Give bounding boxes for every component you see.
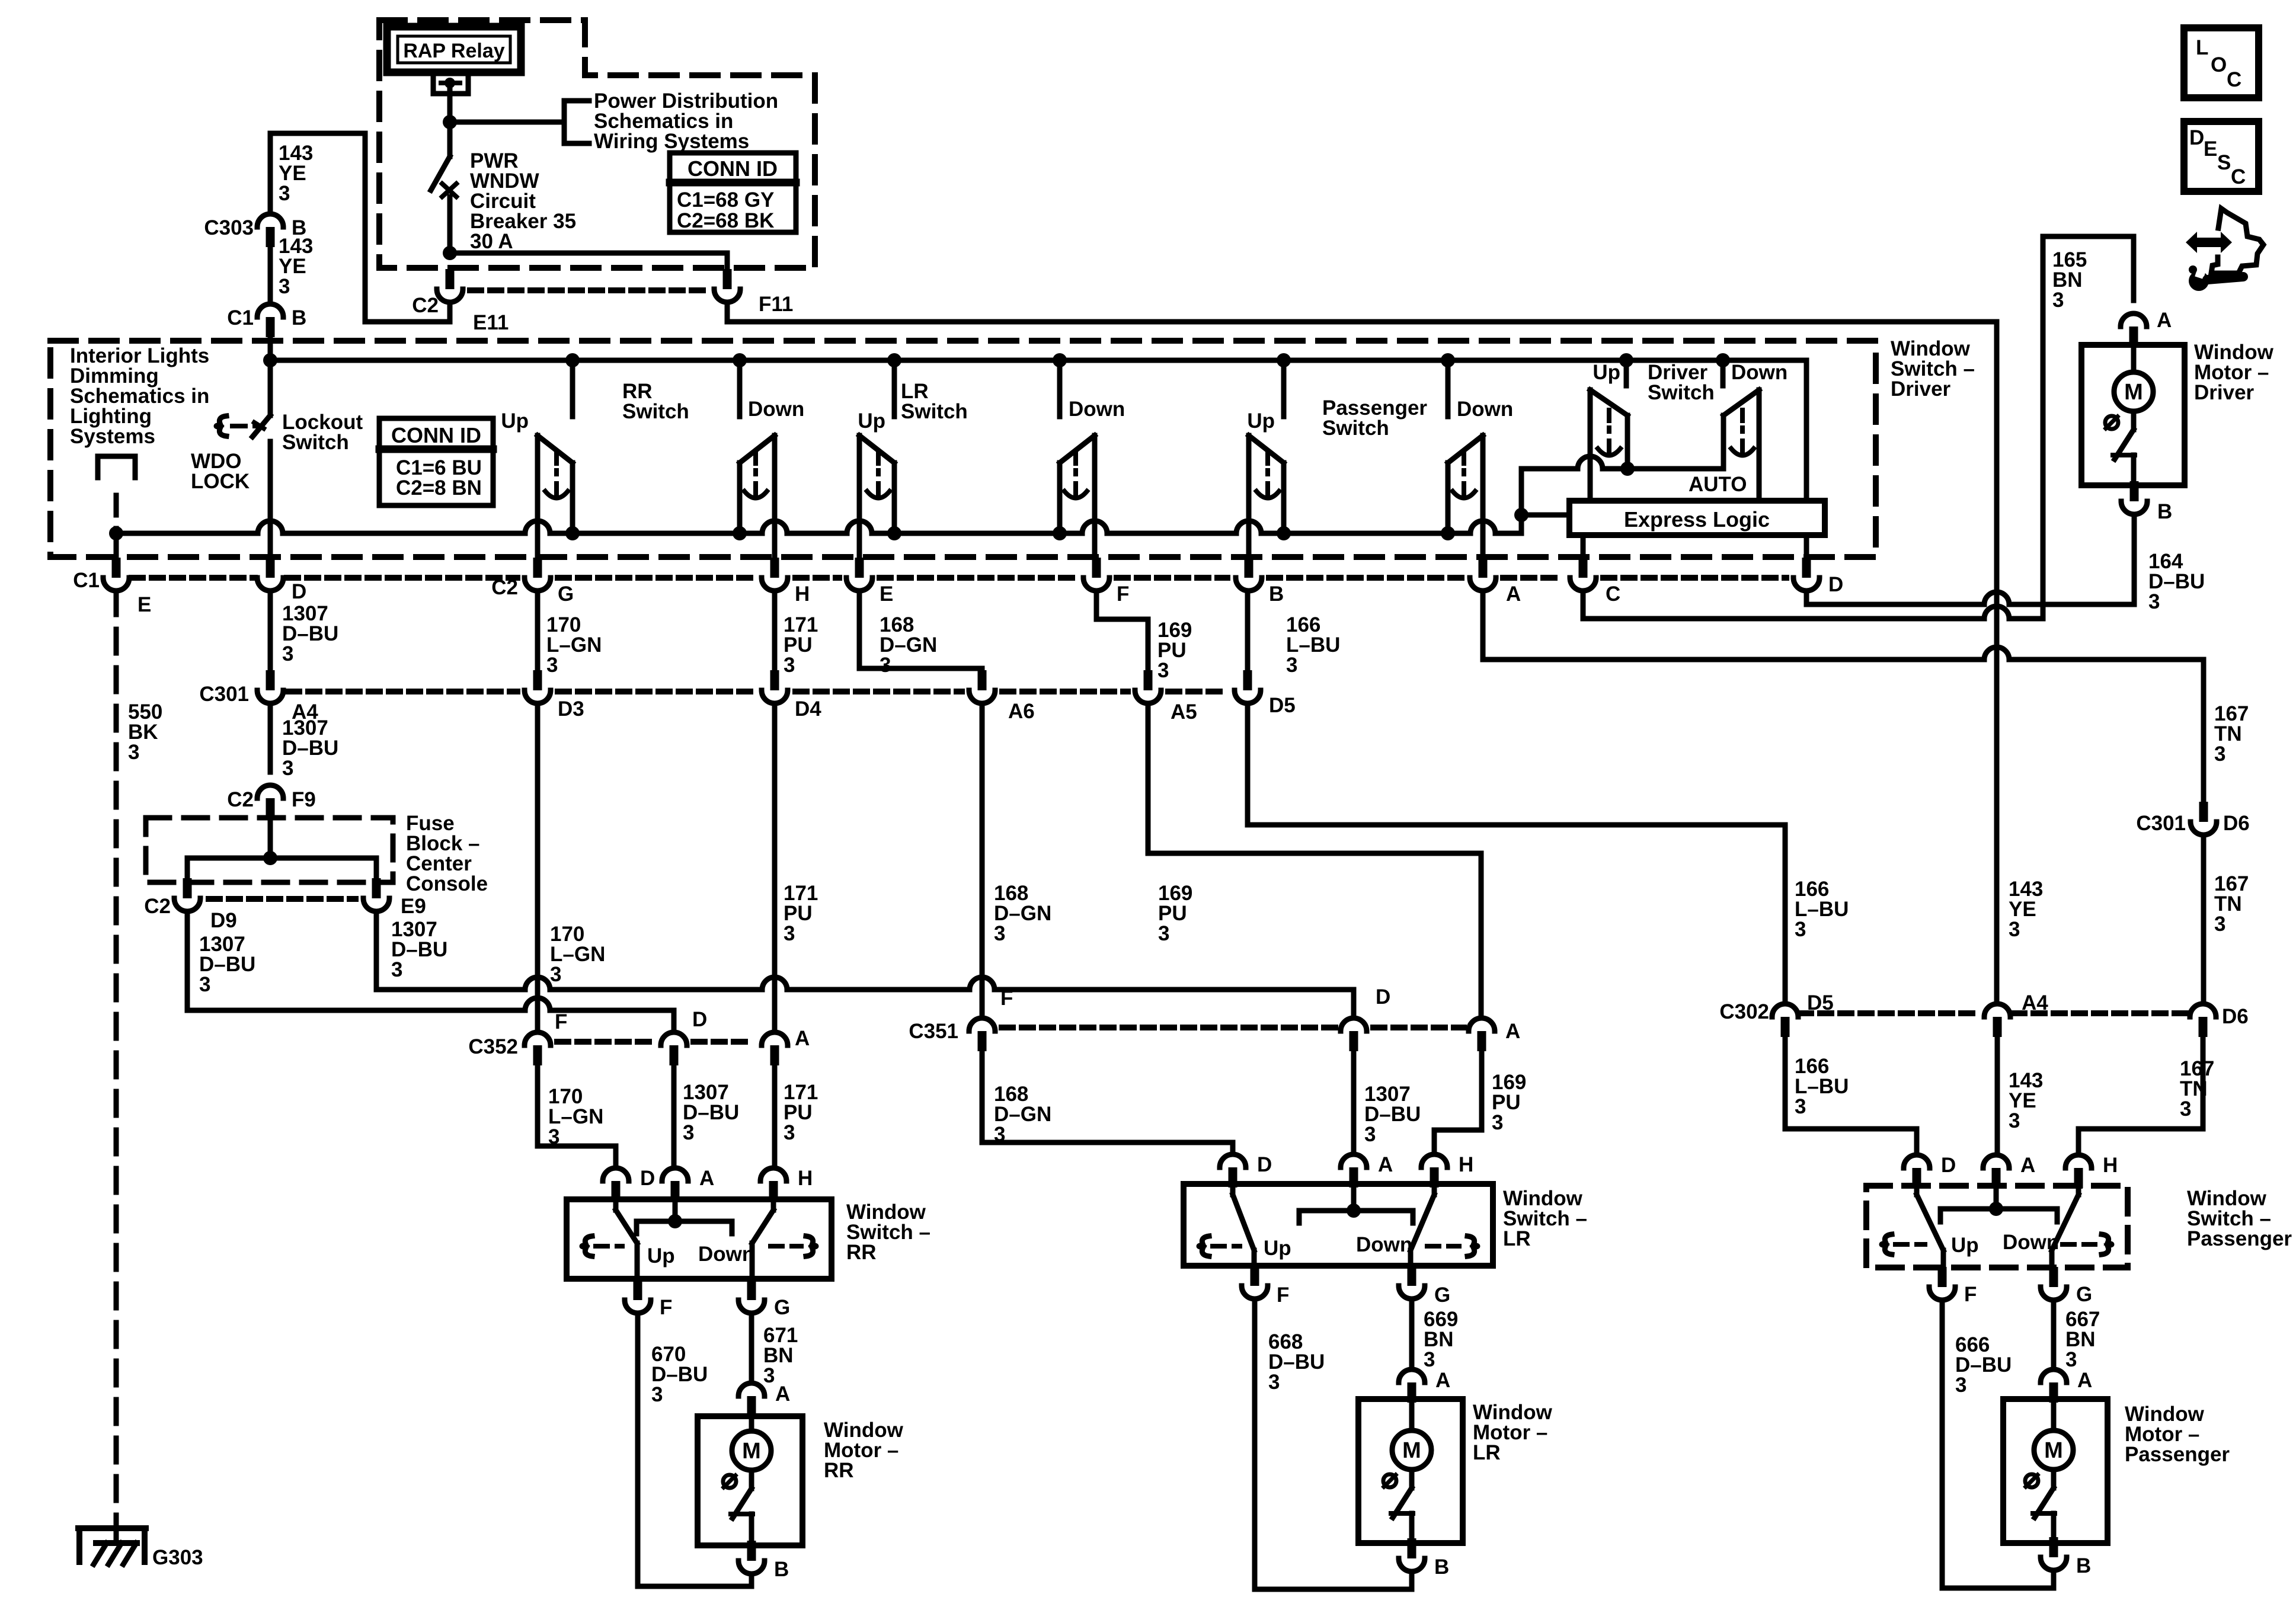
wire 168 D-GN C351-F to LR switch D — [982, 1051, 1233, 1154]
svg-text:Switch: Switch — [1322, 417, 1389, 440]
LR window up switch contact — [892, 360, 897, 417]
svg-text:A: A — [2020, 1154, 2035, 1177]
connector C351 pin D — [1341, 1018, 1367, 1031]
svg-text:C2: C2 — [491, 576, 518, 599]
driver down switch contact — [1723, 390, 1759, 415]
wire 1307 E9 to C351-D — [374, 911, 379, 990]
passenger switch common bar — [1940, 1209, 2057, 1222]
wire 143 YE into window switch — [268, 337, 273, 360]
svg-text:E11: E11 — [473, 311, 509, 334]
CONN ID table (switch) C1=6 BU C2=8 BN — [379, 418, 493, 505]
svg-text:C1: C1 — [73, 569, 100, 592]
svg-text:3: 3 — [1158, 922, 1169, 945]
svg-text:C: C — [2227, 68, 2241, 91]
svg-text:F: F — [555, 1010, 567, 1033]
svg-text:Down: Down — [748, 398, 804, 421]
fuse block - center console (dashed outline) — [379, 20, 815, 268]
wire 166 C302-D5 to passenger D — [1785, 1037, 1917, 1155]
connector pin A (driver motor) — [2121, 313, 2147, 327]
svg-text:3: 3 — [1157, 659, 1169, 682]
svg-text:G: G — [558, 582, 574, 606]
fuse block - center console lower (dashed outline) — [146, 818, 393, 882]
svg-text:G: G — [2076, 1283, 2092, 1306]
wire 169 PU C351-A to LR switch H — [1434, 1051, 1482, 1154]
svg-text:D: D — [1941, 1154, 1956, 1177]
svg-text:D5: D5 — [1807, 991, 1834, 1014]
LR switch down blade — [1432, 1188, 1437, 1195]
connector pin G (passenger switch) — [2049, 1267, 2058, 1287]
wire 168 D-GN A6 to C351-F — [980, 703, 985, 1018]
svg-text:D6: D6 — [2222, 1005, 2249, 1028]
express logic block U1 — [1569, 501, 1825, 535]
svg-text:C: C — [1606, 582, 1620, 606]
circuit breaker 35 PWR WNDW 30A — [447, 122, 453, 156]
wire 143 YE down right side — [1994, 322, 2000, 1003]
svg-text:C352: C352 — [468, 1035, 518, 1058]
svg-text:E9: E9 — [401, 895, 426, 918]
wire 671 BN RR G to motor A — [749, 1313, 754, 1383]
svg-text:C301: C301 — [2136, 812, 2186, 835]
connector pin B (passenger motor) — [2049, 1537, 2058, 1557]
LR window down switch contact — [1057, 360, 1063, 417]
wire 171 PU C352-A to RR switch H — [772, 1065, 778, 1168]
connector pin H (LR switch) — [1421, 1154, 1447, 1167]
svg-text:B: B — [774, 1558, 789, 1581]
connector pin D (passenger switch) — [1904, 1155, 1930, 1168]
svg-text:Switch: Switch — [901, 400, 968, 423]
svg-text:3: 3 — [2180, 1097, 2191, 1121]
connector pin F (passenger switch) — [1938, 1267, 1947, 1287]
svg-text:C303: C303 — [204, 216, 254, 239]
svg-text:3: 3 — [651, 1383, 663, 1406]
svg-text:3: 3 — [2065, 1348, 2077, 1371]
wire 170 L-GN C352-F to RR switch D — [538, 1065, 616, 1168]
connector C1 pin D — [266, 558, 275, 578]
wire 170 L-GN D3 to C352-F — [535, 703, 541, 1032]
wire 169 PU F to C301-A5 — [1096, 591, 1148, 670]
wire 668 D-BU LR F to motor B — [1255, 1299, 1412, 1589]
svg-text:3: 3 — [1424, 1348, 1435, 1371]
svg-text:D3: D3 — [558, 697, 584, 721]
svg-text:3: 3 — [1795, 918, 1806, 941]
svg-text:G: G — [774, 1296, 790, 1319]
connector C2 pin H — [770, 558, 779, 578]
window motor - LR M3 — [1358, 1399, 1463, 1543]
svg-text:M: M — [1402, 1438, 1421, 1463]
window switch - RR box — [567, 1199, 832, 1279]
svg-text:O: O — [2211, 53, 2227, 76]
connector pin A (RR motor) — [738, 1383, 765, 1396]
connector row dotted line D9-E9 — [209, 896, 356, 902]
top bus drop to express logic — [1804, 360, 1809, 501]
connector C301 pin D5 — [1243, 670, 1252, 690]
svg-text:3: 3 — [391, 958, 402, 981]
svg-text:Up: Up — [1593, 361, 1620, 384]
svg-text:Console: Console — [406, 872, 488, 895]
junction node at breaker input — [443, 115, 457, 129]
wire F9 into fuse block with junction — [268, 818, 273, 858]
svg-text:M: M — [742, 1439, 761, 1464]
svg-text:3: 3 — [2148, 590, 2160, 613]
connector C1 pin E (dashed circuit) — [112, 558, 121, 578]
LR switch common bar — [1299, 1211, 1413, 1223]
svg-text:LOCK: LOCK — [191, 470, 250, 493]
wire 166 L-BU D5 to C302-D5 — [1248, 703, 1785, 1003]
connector C301 pin A6 — [978, 670, 987, 690]
wire 171 PU D4 to C352-A — [772, 703, 778, 1032]
wire 1307 D9 to C352-D — [185, 911, 190, 1010]
wire 164 D-BU D to driver motor B — [1806, 592, 2134, 604]
svg-text:Passenger: Passenger — [2187, 1227, 2292, 1250]
svg-text:A4: A4 — [2022, 991, 2048, 1014]
svg-text:RAP Relay: RAP Relay — [403, 40, 504, 62]
svg-text:A: A — [775, 1382, 790, 1406]
svg-text:Up: Up — [1264, 1237, 1291, 1260]
wire 1307 D-BU lockout to C301-A4 — [268, 591, 273, 670]
connector row dotted line C301 — [288, 689, 517, 694]
express logic pin D lead — [1804, 535, 1809, 558]
wire 169 PU A5 to C351-A — [1148, 703, 1481, 1018]
svg-text:C301: C301 — [199, 683, 249, 706]
svg-text:3: 3 — [1268, 1371, 1280, 1394]
svg-text:Switch: Switch — [622, 400, 689, 423]
svg-text:H: H — [1459, 1153, 1473, 1176]
junction node breaker output — [443, 246, 457, 260]
wire 143 YE F11 to passenger feed (long top run) — [727, 302, 1997, 322]
svg-text:M: M — [2124, 380, 2143, 405]
svg-text:B: B — [2157, 500, 2172, 523]
svg-text:3: 3 — [2052, 289, 2064, 312]
lockout switch — [268, 360, 273, 415]
LR switch up blade — [1230, 1188, 1236, 1195]
ground G303 — [114, 1523, 119, 1543]
RR window up switch contact — [570, 360, 575, 417]
svg-text:RR: RR — [846, 1241, 877, 1264]
connector row dotted line C352 — [557, 1039, 655, 1045]
svg-text:A6: A6 — [1008, 700, 1035, 723]
svg-text:Switch: Switch — [282, 431, 349, 454]
svg-text:Wiring Systems: Wiring Systems — [594, 130, 749, 153]
driver switch common links — [1521, 456, 1723, 469]
RR switch common bar — [637, 1221, 732, 1234]
connector C352 pin D — [661, 1032, 687, 1045]
svg-text:Down: Down — [698, 1243, 754, 1266]
svg-text:3: 3 — [548, 1125, 559, 1148]
RR window down switch contact — [737, 360, 743, 417]
RR switch down blade — [771, 1201, 776, 1210]
driver up switch contact — [1590, 390, 1627, 415]
svg-text:F: F — [1964, 1283, 1977, 1306]
window switch - LR box — [1184, 1184, 1493, 1266]
svg-text:D: D — [640, 1167, 655, 1190]
svg-text:C2: C2 — [144, 895, 171, 918]
svg-text:A: A — [1378, 1153, 1393, 1176]
svg-text:Switch: Switch — [1648, 381, 1715, 404]
connector C302 pin D5 — [1772, 1004, 1798, 1017]
svg-text:Up: Up — [647, 1244, 675, 1267]
svg-text:3: 3 — [550, 963, 561, 986]
driver switch down stub — [1721, 360, 1726, 386]
connector pin D (LR switch) — [1220, 1154, 1246, 1167]
wire 165 BN C to driver motor A — [1583, 606, 2043, 619]
wire 1307 D-BU C352-D to RR switch A — [671, 1065, 677, 1168]
window motor - RR M2 — [698, 1416, 802, 1545]
svg-text:Up: Up — [1951, 1234, 1979, 1257]
connector C303 pin B — [257, 214, 283, 227]
top feed bus inside switch — [270, 358, 1806, 363]
svg-text:3: 3 — [683, 1121, 694, 1144]
connector pin B (LR motor) — [1408, 1538, 1416, 1558]
svg-text:3: 3 — [1492, 1111, 1503, 1134]
svg-text:C1=68 GY: C1=68 GY — [677, 188, 774, 212]
connector pin A (passenger motor) — [2041, 1369, 2067, 1382]
passenger window down switch contact — [1446, 360, 1451, 417]
svg-text:CONN ID: CONN ID — [687, 156, 778, 181]
svg-text:3: 3 — [546, 654, 558, 677]
connector C2 pin D9 — [183, 878, 192, 898]
svg-text:3: 3 — [784, 654, 795, 677]
svg-text:Systems: Systems — [70, 425, 155, 448]
connector C301 pin D6 — [2199, 802, 2208, 822]
svg-text:G303: G303 — [152, 1546, 203, 1569]
svg-text:B: B — [2076, 1554, 2091, 1577]
svg-text:F: F — [660, 1296, 672, 1319]
svg-text:C2: C2 — [412, 294, 439, 317]
svg-text:E: E — [880, 582, 893, 606]
wire 666 D-BU pass F to motor B — [1942, 1300, 2054, 1588]
svg-text:F: F — [1277, 1283, 1289, 1307]
svg-text:3: 3 — [1364, 1123, 1376, 1146]
svg-text:F11: F11 — [759, 293, 793, 316]
svg-text:3: 3 — [282, 757, 293, 780]
svg-text:C2=8 BN: C2=8 BN — [396, 476, 482, 500]
svg-text:D: D — [292, 580, 306, 603]
svg-text:3: 3 — [199, 973, 210, 996]
svg-text:C351: C351 — [909, 1020, 958, 1043]
connector C352 pin F — [525, 1032, 551, 1045]
svg-text:A: A — [2077, 1369, 2092, 1392]
svg-text:Up: Up — [858, 409, 885, 433]
wire 550 BK dashed to ground G303 — [114, 591, 119, 1527]
wire 143 YE from E11 down-left to C303 — [270, 133, 450, 322]
svg-text:Driver: Driver — [1891, 377, 1951, 401]
connector pin B (driver motor) — [2130, 481, 2139, 501]
svg-text:Passenger: Passenger — [2125, 1443, 2230, 1466]
connector pin D (RR switch) — [603, 1168, 629, 1181]
wire 669 BN LR G to motor A — [1409, 1299, 1415, 1369]
wire 171 PU H to C301-D4 — [772, 591, 778, 670]
svg-text:3: 3 — [880, 654, 891, 677]
svg-text:F: F — [1000, 987, 1013, 1010]
connector pin F11 — [723, 269, 732, 289]
service icon (arrow, panel, wrench) — [2186, 232, 2232, 253]
connector pin A (RR switch) — [662, 1168, 688, 1181]
svg-text:D5: D5 — [1269, 694, 1296, 717]
connector C302 pin A4 — [1984, 1004, 2010, 1017]
svg-text:Down: Down — [2003, 1231, 2059, 1254]
connector pin F (LR switch) — [1251, 1266, 1259, 1286]
svg-text:G: G — [1434, 1283, 1450, 1307]
connector C2 pin E — [855, 558, 864, 578]
svg-text:3: 3 — [994, 922, 1005, 945]
svg-text:D: D — [2189, 126, 2204, 149]
svg-text:3: 3 — [282, 642, 293, 665]
svg-text:E: E — [2204, 137, 2217, 161]
svg-text:C: C — [2231, 165, 2246, 188]
svg-text:B: B — [1434, 1555, 1449, 1579]
svg-text:D6: D6 — [2223, 812, 2250, 835]
wire 1307 D-BU A4 to C2-F9 — [268, 703, 273, 772]
svg-text:A: A — [699, 1167, 714, 1190]
svg-text:A5: A5 — [1171, 700, 1197, 724]
connector pin H (RR switch) — [760, 1168, 786, 1181]
connector pin F (RR switch) — [634, 1280, 642, 1300]
svg-text:B: B — [1269, 582, 1284, 606]
svg-text:D: D — [1376, 985, 1390, 1009]
connector pin B (RR motor) — [747, 1541, 756, 1561]
connector C301 pin D4 — [770, 670, 779, 690]
svg-text:D: D — [1257, 1153, 1272, 1176]
svg-text:3: 3 — [763, 1364, 775, 1387]
window switch - passenger box (dashed) — [1866, 1186, 2128, 1267]
bottom common bus inside switch — [116, 521, 1521, 533]
svg-text:E: E — [137, 593, 151, 616]
power distribution reference bracket — [562, 101, 567, 143]
wire breaker output to F11 — [450, 251, 727, 256]
dashed wire from interior lights reference to bus — [114, 495, 119, 533]
svg-text:B: B — [292, 306, 306, 329]
svg-text:Up: Up — [501, 409, 529, 433]
connector C2 pin D (express) — [1802, 558, 1811, 578]
wire 167 TN D6 to C302-D6 — [2201, 835, 2207, 1003]
svg-text:H: H — [2103, 1154, 2118, 1177]
svg-text:C2=68 BK: C2=68 BK — [677, 209, 774, 232]
svg-text:A: A — [1505, 1020, 1520, 1043]
wire 170 L-GN G to C301-D3 — [535, 591, 541, 670]
svg-text:A: A — [795, 1027, 810, 1050]
wire to power distribution reference — [450, 120, 564, 125]
svg-text:RR: RR — [824, 1459, 854, 1482]
wire 143 C302-A4 to passenger A — [1995, 1037, 2000, 1155]
svg-text:Up: Up — [1247, 409, 1275, 433]
svg-text:AUTO: AUTO — [1689, 473, 1747, 496]
svg-text:Down: Down — [1457, 398, 1513, 421]
connector row dotted line E11-F11 — [470, 287, 707, 293]
passenger switch down blade — [2076, 1188, 2081, 1195]
svg-text:LR: LR — [1473, 1441, 1501, 1464]
connector C2 pin A — [1479, 558, 1488, 578]
svg-text:D: D — [1828, 573, 1843, 596]
connector row dotted line C351 — [1002, 1025, 1335, 1030]
svg-text:A: A — [1435, 1369, 1450, 1392]
junction dot lockout at bus — [263, 353, 277, 367]
svg-text:CONN ID: CONN ID — [391, 423, 481, 447]
svg-text:3: 3 — [994, 1123, 1005, 1146]
connector C301 pin D3 — [533, 670, 542, 690]
svg-text:Down: Down — [1356, 1233, 1412, 1256]
RAP relay pin bracket — [433, 75, 468, 94]
svg-text:A: A — [1506, 582, 1521, 606]
svg-text:3: 3 — [1795, 1095, 1806, 1118]
wire 167 C302-D6 to passenger H — [2078, 1037, 2203, 1155]
connector pin G (LR switch) — [1408, 1266, 1416, 1286]
connector pin A (passenger switch) — [1983, 1155, 2009, 1168]
svg-text:L: L — [2196, 36, 2208, 59]
svg-text:3: 3 — [1955, 1374, 1966, 1397]
svg-text:3: 3 — [2009, 1109, 2020, 1132]
svg-text:Down: Down — [1731, 361, 1787, 384]
svg-text:H: H — [798, 1167, 813, 1190]
svg-text:D4: D4 — [795, 697, 821, 721]
svg-text:3: 3 — [784, 1121, 795, 1144]
svg-text:3: 3 — [279, 275, 290, 298]
connector pin H (passenger switch) — [2065, 1155, 2092, 1168]
connector C2 pin B — [1245, 558, 1253, 578]
connector row dotted line C1/C2 — [132, 575, 255, 581]
connector row dotted line C302 — [1800, 1010, 1981, 1016]
connector pin A (LR motor) — [1399, 1369, 1425, 1382]
connector C2 pin F — [1092, 558, 1101, 578]
connector C2 pin C — [1579, 558, 1588, 578]
svg-text:C302: C302 — [1719, 1000, 1769, 1023]
connector C351 pin A — [1469, 1018, 1495, 1031]
svg-text:F9: F9 — [292, 788, 316, 811]
svg-text:Express Logic: Express Logic — [1624, 507, 1770, 532]
DESC legend box — [2184, 121, 2259, 191]
connector C301 pin A5 — [1144, 670, 1153, 690]
wire 168 D-GN E to C301-A6 — [859, 591, 982, 670]
svg-text:C2: C2 — [227, 788, 254, 811]
wire 166 L-BU B to C301-D5 — [1245, 591, 1251, 670]
window motor - driver M1 — [2081, 345, 2185, 485]
svg-text:H: H — [795, 582, 810, 606]
svg-text:Down: Down — [1069, 398, 1125, 421]
passenger window up switch contact — [1281, 360, 1287, 417]
svg-text:A: A — [2157, 309, 2172, 332]
wire 1307 D-BU C351-D to LR switch A — [1351, 1051, 1357, 1154]
connector C352 pin A — [762, 1032, 788, 1045]
CONN ID table (fuse block) C1=68 GY C2=68 BK — [670, 153, 796, 232]
svg-text:3: 3 — [279, 182, 290, 205]
connector C2 pin G — [533, 558, 542, 578]
relay K? RAP Relay box — [387, 27, 521, 72]
wire 667 BN pass G to motor A — [2051, 1300, 2057, 1369]
svg-text:3: 3 — [128, 741, 139, 764]
svg-text:Driver: Driver — [2194, 381, 2255, 404]
window motor - passenger M4 — [2003, 1399, 2108, 1543]
connector pin G (RR switch) — [747, 1280, 756, 1300]
wire 670 D-BU RR F to motor B — [638, 1313, 752, 1586]
connector C2 pin E11 — [446, 269, 455, 289]
express logic pin C lead — [1581, 535, 1586, 558]
svg-text:30 A: 30 A — [470, 230, 513, 253]
connector C351 pin F — [969, 1018, 995, 1031]
svg-text:3: 3 — [2009, 918, 2020, 941]
svg-text:M: M — [2044, 1438, 2063, 1463]
wire 167 TN A to C301-D6 — [1483, 647, 2204, 660]
svg-text:3: 3 — [2214, 742, 2225, 766]
connector C302 pin D6 — [2190, 1004, 2216, 1017]
interior lights reference bracket — [98, 454, 135, 459]
connector C2 pin E9 — [372, 878, 381, 898]
svg-text:3: 3 — [784, 922, 795, 945]
driver switch up stub — [1624, 360, 1629, 386]
svg-text:C1: C1 — [227, 306, 254, 329]
svg-text:3: 3 — [1286, 654, 1297, 677]
connector C2 pin F9 — [257, 785, 283, 798]
svg-text:D: D — [692, 1008, 707, 1031]
svg-text:S: S — [2217, 151, 2231, 174]
